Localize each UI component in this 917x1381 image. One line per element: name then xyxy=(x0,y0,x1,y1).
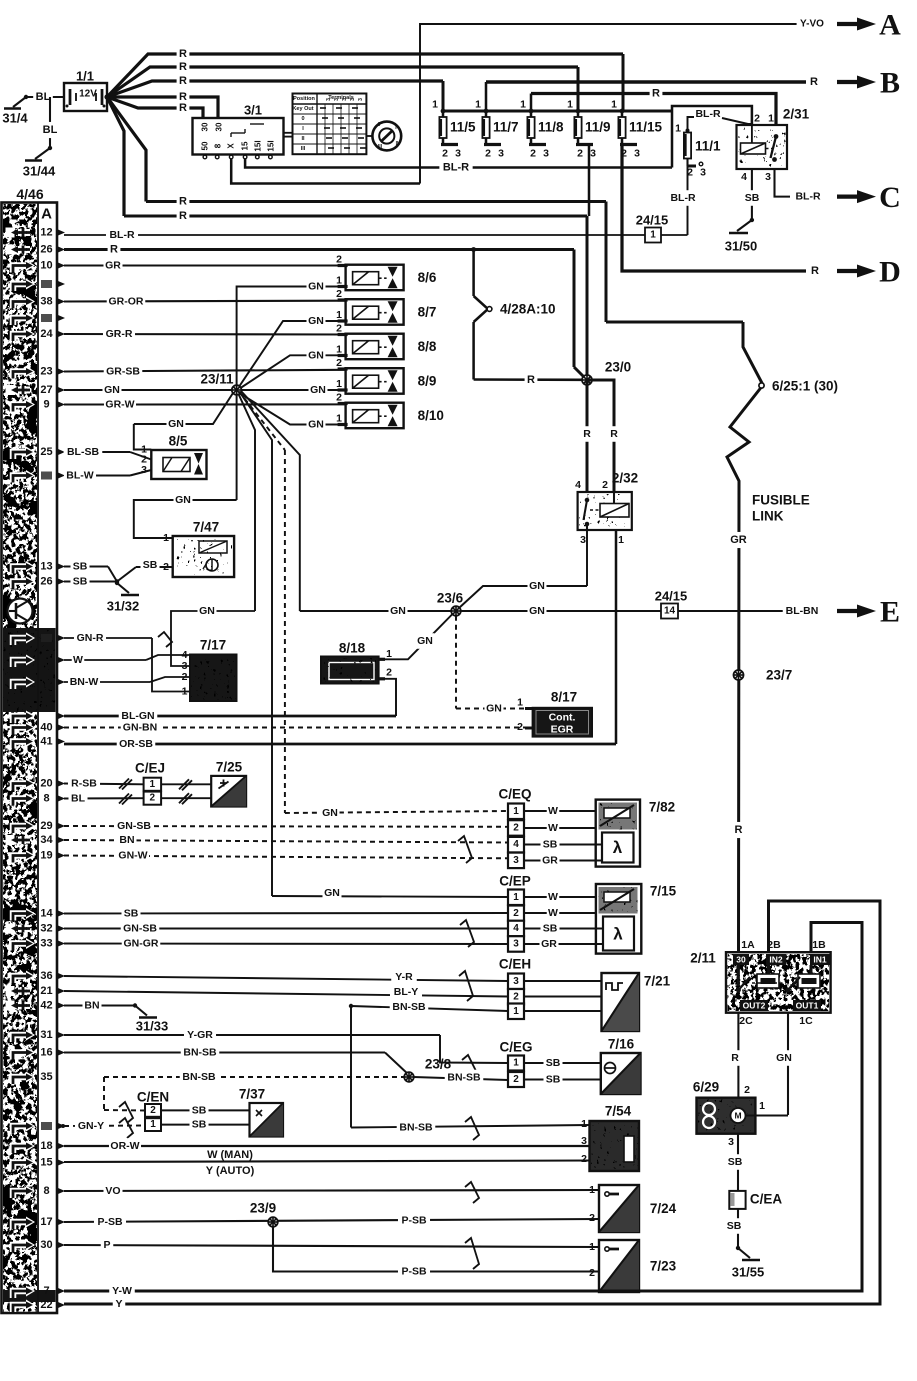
svg-text:C/EP: C/EP xyxy=(499,874,531,889)
svg-text:7/25: 7/25 xyxy=(216,760,243,775)
svg-text:8: 8 xyxy=(214,143,223,148)
svg-text:BL-R: BL-R xyxy=(695,108,720,120)
svg-text:C/EN: C/EN xyxy=(137,1090,169,1105)
svg-text:R: R xyxy=(731,1052,739,1064)
svg-text:GR-R: GR-R xyxy=(106,328,133,340)
svg-text:36: 36 xyxy=(40,970,52,982)
svg-text:OR-SB: OR-SB xyxy=(119,738,153,750)
svg-text:3: 3 xyxy=(326,98,332,101)
svg-text:1: 1 xyxy=(567,99,573,111)
svg-text:1: 1 xyxy=(150,1119,156,1130)
svg-text:14: 14 xyxy=(40,908,53,920)
svg-text:R: R xyxy=(811,265,819,277)
svg-text:R: R xyxy=(652,88,660,100)
svg-text:E: E xyxy=(880,596,900,629)
svg-text:SB: SB xyxy=(143,559,158,571)
svg-text:7/17: 7/17 xyxy=(200,638,226,653)
svg-text:3: 3 xyxy=(342,98,348,101)
svg-text:GN: GN xyxy=(308,281,324,293)
svg-text:7/23: 7/23 xyxy=(650,1259,677,1274)
svg-text:2/32: 2/32 xyxy=(612,471,638,486)
svg-text:41: 41 xyxy=(40,736,52,748)
svg-text:31: 31 xyxy=(40,1029,52,1041)
svg-text:GN: GN xyxy=(308,349,324,361)
svg-text:2: 2 xyxy=(589,1212,595,1224)
svg-text:D: D xyxy=(879,256,901,289)
svg-text:15I: 15I xyxy=(254,140,263,151)
svg-text:BL: BL xyxy=(36,91,51,103)
svg-text:23/0: 23/0 xyxy=(605,360,631,375)
svg-text:BN-SB: BN-SB xyxy=(392,1001,426,1013)
svg-text:W: W xyxy=(548,805,558,817)
svg-text:A: A xyxy=(41,206,52,223)
svg-text:3: 3 xyxy=(765,171,771,183)
svg-text:7/15: 7/15 xyxy=(650,884,677,899)
svg-text:R-SB: R-SB xyxy=(71,778,97,790)
svg-text:50: 50 xyxy=(201,141,210,150)
svg-text:2: 2 xyxy=(589,1267,595,1279)
svg-text:2: 2 xyxy=(485,148,491,160)
svg-text:BN-W: BN-W xyxy=(70,676,99,688)
svg-text:SB: SB xyxy=(546,1057,561,1069)
svg-text:SB: SB xyxy=(543,923,558,935)
svg-text:BL: BL xyxy=(71,793,86,805)
svg-text:R: R xyxy=(179,196,187,208)
svg-text:2: 2 xyxy=(513,908,519,919)
svg-text:3: 3 xyxy=(513,938,519,949)
svg-text:1: 1 xyxy=(768,113,774,125)
svg-text:C/EQ: C/EQ xyxy=(498,787,531,802)
svg-text:1: 1 xyxy=(336,378,342,390)
svg-text:7: 7 xyxy=(43,1285,49,1297)
svg-text:R: R xyxy=(110,244,118,256)
svg-text:GN: GN xyxy=(390,605,406,617)
svg-text:2: 2 xyxy=(744,1084,750,1096)
svg-text:31/50: 31/50 xyxy=(725,239,758,254)
svg-text:GR: GR xyxy=(730,534,747,546)
svg-text:3: 3 xyxy=(513,855,519,866)
svg-text:1: 1 xyxy=(513,1058,519,1069)
svg-text:8/10: 8/10 xyxy=(418,408,444,423)
svg-text:8/7: 8/7 xyxy=(418,305,437,320)
svg-text:1: 1 xyxy=(336,344,342,356)
svg-text:VO: VO xyxy=(105,1185,120,1197)
svg-text:2: 2 xyxy=(581,1153,587,1165)
svg-text:C: C xyxy=(879,181,901,214)
svg-text:X: X xyxy=(227,143,236,149)
svg-text:BN-SB: BN-SB xyxy=(183,1047,217,1059)
svg-text:M: M xyxy=(734,1111,741,1121)
svg-text:GN: GN xyxy=(104,384,120,396)
svg-text:24: 24 xyxy=(40,328,53,340)
svg-text:11/7: 11/7 xyxy=(493,120,519,135)
svg-text:SB: SB xyxy=(73,576,88,588)
svg-text:R: R xyxy=(735,824,743,836)
svg-text:1: 1 xyxy=(517,697,523,709)
svg-text:GN: GN xyxy=(529,580,545,592)
svg-text:Position: Position xyxy=(293,96,315,102)
svg-text:7/37: 7/37 xyxy=(239,1087,265,1102)
svg-text:3: 3 xyxy=(498,148,504,160)
svg-text:3: 3 xyxy=(455,148,461,160)
svg-text:6/25:1 (30): 6/25:1 (30) xyxy=(772,379,838,394)
svg-text:8/9: 8/9 xyxy=(418,374,437,389)
svg-text:W: W xyxy=(73,654,83,666)
svg-text:BN-SB: BN-SB xyxy=(399,1122,433,1134)
svg-text:FUSIBLE: FUSIBLE xyxy=(752,493,810,508)
svg-text:BN-SB: BN-SB xyxy=(182,1071,216,1083)
svg-text:1: 1 xyxy=(513,1006,519,1017)
svg-text:Y-GR: Y-GR xyxy=(187,1029,213,1041)
svg-text:17: 17 xyxy=(40,1216,52,1228)
svg-text:23/6: 23/6 xyxy=(437,591,464,606)
svg-text:4: 4 xyxy=(513,923,519,934)
svg-text:GN-SB: GN-SB xyxy=(123,923,157,935)
svg-text:16: 16 xyxy=(40,1047,52,1059)
svg-text:IN2: IN2 xyxy=(769,955,783,965)
svg-text:GN: GN xyxy=(776,1052,792,1064)
svg-text:3/1: 3/1 xyxy=(244,103,262,118)
svg-text:EGR: EGR xyxy=(551,724,574,736)
svg-text:2: 2 xyxy=(336,323,342,335)
svg-text:2: 2 xyxy=(513,991,519,1002)
svg-text:1: 1 xyxy=(432,99,438,111)
svg-text:1: 1 xyxy=(475,99,481,111)
svg-text:18: 18 xyxy=(40,1140,52,1152)
svg-text:λ: λ xyxy=(613,838,623,857)
svg-text:7/24: 7/24 xyxy=(650,1201,677,1216)
svg-text:31/32: 31/32 xyxy=(107,599,140,614)
svg-text:IN1: IN1 xyxy=(813,955,827,965)
svg-text:W: W xyxy=(548,891,558,903)
svg-text:15: 15 xyxy=(241,141,250,150)
svg-text:4: 4 xyxy=(513,839,519,850)
svg-text:1C: 1C xyxy=(799,1015,813,1027)
svg-text:λ: λ xyxy=(613,925,623,944)
svg-text:31/4: 31/4 xyxy=(2,111,28,126)
svg-text:SB: SB xyxy=(124,908,139,920)
svg-text:1: 1 xyxy=(386,648,392,660)
svg-text:Y-VO: Y-VO xyxy=(800,19,824,30)
svg-text:GR: GR xyxy=(541,938,557,950)
svg-text:24/15: 24/15 xyxy=(655,589,688,604)
svg-text:C/EJ: C/EJ xyxy=(135,761,165,776)
svg-text:0: 0 xyxy=(378,122,381,128)
svg-text:R: R xyxy=(810,76,818,88)
svg-text:10: 10 xyxy=(40,260,52,272)
svg-text:27: 27 xyxy=(40,384,52,396)
svg-text:GN-SB: GN-SB xyxy=(117,820,151,832)
svg-text:1: 1 xyxy=(618,534,624,546)
svg-text:38: 38 xyxy=(40,296,52,308)
svg-text:3: 3 xyxy=(634,148,640,160)
svg-text:BN-SB: BN-SB xyxy=(447,1072,481,1084)
svg-text:3: 3 xyxy=(581,1135,587,1147)
svg-text:0: 0 xyxy=(301,116,304,122)
svg-text:1: 1 xyxy=(336,413,342,425)
svg-text:15: 15 xyxy=(40,1157,52,1169)
svg-text:2: 2 xyxy=(336,392,342,404)
svg-text:14: 14 xyxy=(664,606,676,617)
svg-text:2: 2 xyxy=(602,479,608,491)
svg-text:GN: GN xyxy=(168,418,184,430)
svg-text:35: 35 xyxy=(40,1071,52,1083)
svg-text:3: 3 xyxy=(543,148,549,160)
svg-text:BL-R: BL-R xyxy=(670,192,695,204)
svg-text:30: 30 xyxy=(40,1239,52,1251)
svg-text:R: R xyxy=(583,428,591,440)
svg-text:SB: SB xyxy=(192,1104,207,1116)
svg-text:GN: GN xyxy=(310,384,326,396)
svg-text:GR-SB: GR-SB xyxy=(106,366,140,378)
svg-text:7/47: 7/47 xyxy=(193,520,219,535)
svg-text:OR-W: OR-W xyxy=(110,1140,139,1152)
svg-text:P-SB: P-SB xyxy=(401,1266,427,1278)
svg-text:GR: GR xyxy=(542,855,558,867)
svg-text:R: R xyxy=(610,428,618,440)
svg-text:1: 1 xyxy=(520,99,526,111)
svg-text:2: 2 xyxy=(577,148,583,160)
svg-text:BL-R: BL-R xyxy=(795,191,820,203)
svg-text:8/5: 8/5 xyxy=(169,434,188,449)
svg-text:1: 1 xyxy=(336,309,342,321)
svg-text:1: 1 xyxy=(581,1118,587,1130)
svg-text:1: 1 xyxy=(513,892,519,903)
svg-text:1: 1 xyxy=(150,779,156,790)
svg-text:23/9: 23/9 xyxy=(250,1201,276,1216)
svg-text:BL: BL xyxy=(43,124,58,136)
svg-text:R: R xyxy=(179,61,187,73)
svg-text:8/17: 8/17 xyxy=(551,690,577,705)
svg-text:1: 1 xyxy=(589,1184,595,1196)
svg-text:21: 21 xyxy=(40,985,52,997)
svg-text:3: 3 xyxy=(358,98,364,101)
svg-text:2: 2 xyxy=(754,113,760,125)
svg-text:26: 26 xyxy=(40,576,52,588)
svg-text:31/33: 31/33 xyxy=(136,1019,169,1034)
svg-text:1: 1 xyxy=(611,99,617,111)
svg-text:4/28A:10: 4/28A:10 xyxy=(500,302,556,317)
svg-text:LINK: LINK xyxy=(752,509,784,524)
svg-text:GR-OR: GR-OR xyxy=(109,296,144,308)
svg-text:SB: SB xyxy=(546,1074,561,1086)
svg-text:2: 2 xyxy=(150,1105,156,1116)
svg-text:2: 2 xyxy=(336,288,342,300)
svg-text:1: 1 xyxy=(589,1241,595,1253)
svg-text:3: 3 xyxy=(580,534,586,546)
svg-text:23: 23 xyxy=(40,366,52,378)
svg-text:7/21: 7/21 xyxy=(644,974,671,989)
svg-text:2/11: 2/11 xyxy=(690,951,716,966)
svg-text:SB: SB xyxy=(192,1119,207,1131)
svg-text:8/8: 8/8 xyxy=(418,339,437,354)
svg-text:1: 1 xyxy=(163,532,169,544)
svg-text:1A: 1A xyxy=(741,939,755,951)
svg-text:7/54: 7/54 xyxy=(605,1104,632,1119)
svg-text:1: 1 xyxy=(675,123,681,135)
svg-text:7/82: 7/82 xyxy=(649,800,675,815)
svg-text:23/11: 23/11 xyxy=(200,372,234,387)
svg-text:1: 1 xyxy=(759,1100,765,1112)
svg-text:3: 3 xyxy=(700,167,706,179)
svg-text:II: II xyxy=(301,136,305,142)
svg-text:GN: GN xyxy=(175,494,191,506)
svg-text:GN: GN xyxy=(417,635,433,647)
svg-text:2/31: 2/31 xyxy=(783,107,810,122)
svg-text:2B: 2B xyxy=(767,939,781,951)
svg-text:2: 2 xyxy=(530,148,536,160)
svg-text:GN: GN xyxy=(324,887,340,899)
svg-text:12V: 12V xyxy=(79,89,97,100)
svg-text:BL-Y: BL-Y xyxy=(394,986,419,998)
svg-text:8: 8 xyxy=(43,793,49,805)
svg-text:C/EG: C/EG xyxy=(499,1040,532,1055)
svg-text:P-SB: P-SB xyxy=(401,1215,427,1227)
svg-text:7/16: 7/16 xyxy=(608,1037,635,1052)
svg-text:23/8: 23/8 xyxy=(425,1057,452,1072)
svg-text:GN-GR: GN-GR xyxy=(124,938,159,950)
svg-text:2: 2 xyxy=(336,254,342,266)
svg-text:13: 13 xyxy=(40,561,52,573)
svg-text:GN: GN xyxy=(529,605,545,617)
svg-text:1/1: 1/1 xyxy=(76,69,94,84)
svg-text:11/9: 11/9 xyxy=(585,120,611,135)
svg-text:R: R xyxy=(179,102,187,114)
svg-text:C/EA: C/EA xyxy=(750,1192,783,1207)
svg-text:2: 2 xyxy=(513,1074,519,1085)
svg-text:31/55: 31/55 xyxy=(732,1265,765,1280)
svg-text:12: 12 xyxy=(40,227,52,239)
svg-text:42: 42 xyxy=(40,1000,52,1012)
svg-text:8/6: 8/6 xyxy=(418,270,437,285)
svg-text:BL-BN: BL-BN xyxy=(786,605,819,617)
svg-text:GN: GN xyxy=(199,605,215,617)
svg-text:GN: GN xyxy=(308,419,324,431)
svg-text:Y (AUTO): Y (AUTO) xyxy=(206,1165,255,1177)
svg-text:OUT1: OUT1 xyxy=(796,1001,819,1011)
svg-text:GN: GN xyxy=(486,703,502,715)
svg-text:P-SB: P-SB xyxy=(97,1216,123,1228)
svg-text:2C: 2C xyxy=(739,1015,753,1027)
svg-text:BL-W: BL-W xyxy=(66,470,93,482)
svg-text:30: 30 xyxy=(201,122,210,131)
svg-text:R: R xyxy=(179,48,187,60)
svg-text:GN-W: GN-W xyxy=(118,850,147,862)
svg-text:32: 32 xyxy=(40,923,52,935)
svg-text:SB: SB xyxy=(543,839,558,851)
svg-text:2: 2 xyxy=(442,148,448,160)
svg-text:R: R xyxy=(179,75,187,87)
svg-text:8/18: 8/18 xyxy=(339,641,366,656)
svg-text:GN: GN xyxy=(308,315,324,327)
svg-text:Key Out: Key Out xyxy=(292,106,313,112)
svg-text:33: 33 xyxy=(40,938,52,950)
svg-text:3: 3 xyxy=(513,976,519,987)
svg-text:OUT2: OUT2 xyxy=(743,1001,766,1011)
svg-text:34: 34 xyxy=(40,834,53,846)
svg-text:A: A xyxy=(879,9,901,42)
svg-text:4: 4 xyxy=(741,171,747,183)
svg-text:2: 2 xyxy=(513,822,519,833)
svg-text:BL-SB: BL-SB xyxy=(67,446,99,458)
svg-text:BL-R: BL-R xyxy=(443,162,469,174)
svg-text:W: W xyxy=(548,907,558,919)
svg-text:B: B xyxy=(880,67,900,100)
svg-text:30: 30 xyxy=(215,122,224,131)
svg-text:1: 1 xyxy=(336,275,342,287)
svg-text:1: 1 xyxy=(650,230,656,241)
svg-text:4/46: 4/46 xyxy=(16,186,43,202)
svg-text:III: III xyxy=(301,146,306,152)
svg-text:8: 8 xyxy=(43,1185,49,1197)
svg-text:11/1: 11/1 xyxy=(695,139,721,154)
svg-text:3: 3 xyxy=(334,98,340,101)
svg-text:SB: SB xyxy=(727,1220,742,1232)
svg-text:Y-W: Y-W xyxy=(112,1285,132,1297)
svg-text:4: 4 xyxy=(575,479,581,491)
svg-text:29: 29 xyxy=(40,820,52,832)
svg-text:30: 30 xyxy=(736,955,746,965)
svg-text:SB: SB xyxy=(728,1156,743,1168)
svg-text:GN-BN: GN-BN xyxy=(123,722,157,734)
svg-text:GN-Y: GN-Y xyxy=(78,1120,104,1132)
svg-text:2: 2 xyxy=(336,357,342,369)
svg-text:Y: Y xyxy=(115,1298,122,1310)
svg-text:1B: 1B xyxy=(812,939,826,951)
svg-text:40: 40 xyxy=(40,722,52,734)
svg-text:3: 3 xyxy=(590,148,596,160)
svg-text:BN: BN xyxy=(119,834,134,846)
svg-text:C/EH: C/EH xyxy=(499,957,531,972)
svg-text:22: 22 xyxy=(40,1299,52,1311)
svg-text:Y-R: Y-R xyxy=(395,971,413,983)
svg-text:2: 2 xyxy=(150,793,156,804)
svg-text:R: R xyxy=(527,374,535,386)
svg-text:20: 20 xyxy=(40,778,52,790)
svg-text:11/15: 11/15 xyxy=(629,120,663,135)
svg-text:23/7: 23/7 xyxy=(766,668,792,683)
svg-text:BL-R: BL-R xyxy=(109,229,134,241)
svg-text:P: P xyxy=(103,1239,110,1251)
svg-text:SB: SB xyxy=(73,561,88,573)
svg-text:3: 3 xyxy=(728,1136,734,1148)
svg-text:11/5: 11/5 xyxy=(450,120,476,135)
svg-text:Cont.: Cont. xyxy=(549,712,576,724)
svg-text:GN-R: GN-R xyxy=(77,632,104,644)
svg-text:1: 1 xyxy=(513,806,519,817)
svg-text:GR: GR xyxy=(105,260,121,272)
svg-text:25: 25 xyxy=(40,446,52,458)
svg-text:15I: 15I xyxy=(267,140,276,151)
svg-text:W (MAN): W (MAN) xyxy=(207,1149,253,1161)
svg-text:9: 9 xyxy=(43,399,49,411)
svg-text:26: 26 xyxy=(40,244,52,256)
svg-text:11/8: 11/8 xyxy=(538,120,564,135)
svg-text:6/29: 6/29 xyxy=(693,1080,719,1095)
svg-text:R: R xyxy=(179,210,187,222)
svg-text:BN: BN xyxy=(84,1000,99,1012)
svg-text:SB: SB xyxy=(745,192,760,204)
svg-text:W: W xyxy=(548,822,558,834)
svg-text:31/44: 31/44 xyxy=(23,164,56,179)
svg-text:GN: GN xyxy=(322,807,338,819)
svg-text:19: 19 xyxy=(40,850,52,862)
svg-text:3: 3 xyxy=(141,464,147,476)
svg-text:2: 2 xyxy=(386,667,392,679)
svg-text:GR-W: GR-W xyxy=(105,399,134,411)
svg-text:III: III xyxy=(378,144,383,150)
svg-text:24/15: 24/15 xyxy=(636,213,669,228)
